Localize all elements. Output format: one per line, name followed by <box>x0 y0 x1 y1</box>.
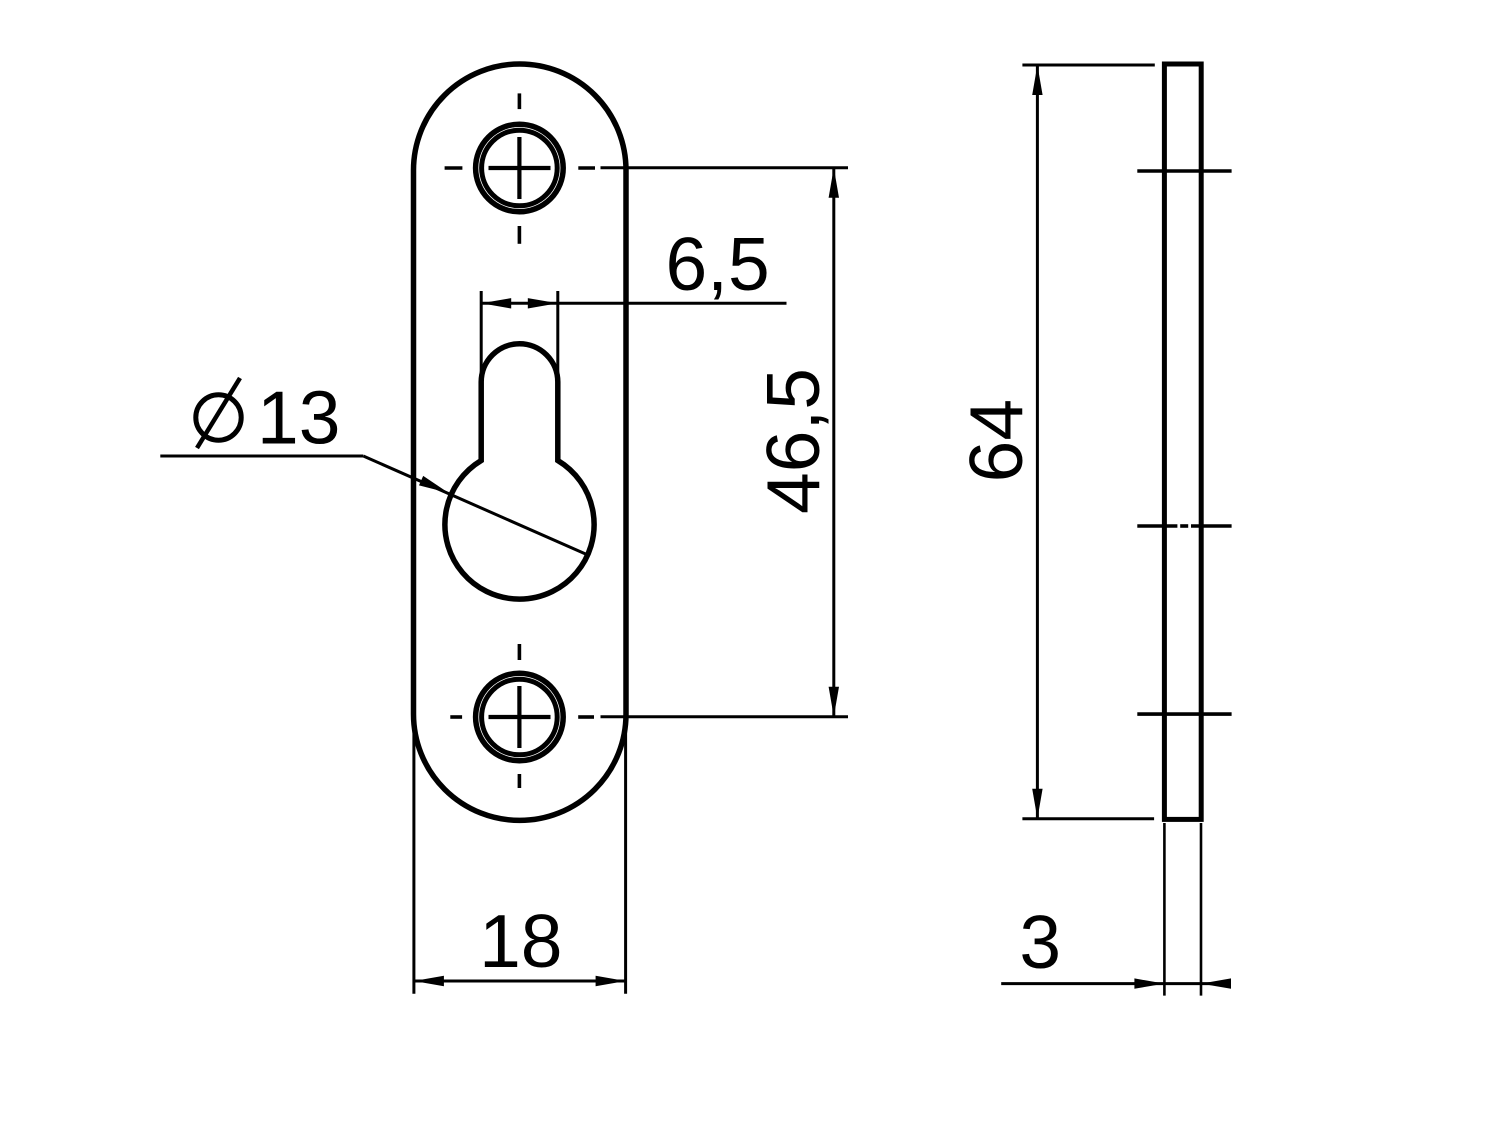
diameter symbol circle <box>196 395 241 440</box>
dimension 18 dimension line <box>414 980 626 983</box>
svg-text:46,5: 46,5 <box>751 368 835 514</box>
dimension 46,5 arrow down <box>829 687 839 717</box>
side view keyhole centerline (dash-dot) <box>1137 524 1231 528</box>
front view: plate outline (obround) <box>414 64 627 820</box>
dimension 64 dimension line <box>1036 65 1039 819</box>
dimension 3 left extension line <box>1163 823 1166 996</box>
svg-text:64: 64 <box>954 399 1038 482</box>
svg-text:3: 3 <box>1019 900 1061 984</box>
dimension 6,5 left extension line <box>480 291 483 379</box>
dimension 64 arrow up <box>1032 65 1042 95</box>
dimension 18 arrow right <box>596 976 626 986</box>
dimension 6,5 arrow left <box>481 298 511 308</box>
leader diameter 13: diagonal line through keyhole circle <box>363 456 587 555</box>
side view: plate rectangle <box>1164 64 1201 819</box>
dimension 3 arrow pointing right <box>1134 978 1164 988</box>
svg-text:13: 13 <box>257 376 340 460</box>
dimension 3 arrow pointing left <box>1201 978 1231 988</box>
top hole vertical centerline <box>518 93 522 243</box>
dimension 46,5 arrow up <box>829 168 839 198</box>
dimension 3 dimension line <box>1001 982 1230 985</box>
bottom screw hole inner circle <box>482 679 558 755</box>
bottom screw hole outer circle <box>476 673 564 761</box>
dimension 3 right extension line <box>1200 823 1203 996</box>
dimension 18 right extension line <box>624 716 627 994</box>
dimension 6,5 right extension line <box>556 291 559 373</box>
keyhole slot outline <box>445 344 594 599</box>
side view top hole centerline <box>1137 169 1231 173</box>
leader diameter 13: arrowhead on circle edge <box>419 476 449 493</box>
leader diameter 13: shoulder line <box>160 455 363 458</box>
diameter symbol slash <box>197 378 240 448</box>
side view bottom hole centerline <box>1137 712 1231 716</box>
top screw hole inner circle <box>482 130 558 206</box>
bottom hole vertical centerline <box>518 644 522 788</box>
top hole horizontal centerline <box>445 166 595 170</box>
dimension 46,5 top extension line <box>601 166 849 169</box>
dimension 64 arrow down <box>1032 789 1042 819</box>
dimension 64 top extension line <box>1022 64 1154 67</box>
dimension 64 bottom extension line <box>1022 817 1154 820</box>
dimension 18 left extension line <box>412 716 415 994</box>
bottom hole horizontal centerline <box>450 715 594 719</box>
svg-text:6,5: 6,5 <box>665 222 769 306</box>
dimension 46,5 bottom extension line <box>601 715 849 718</box>
svg-text:18: 18 <box>479 899 562 983</box>
dimension 6,5 arrow right <box>528 298 558 308</box>
dimension 18 arrow left <box>414 976 444 986</box>
dimension 6,5 dimension line <box>481 302 786 305</box>
dimension 46,5 dimension line <box>832 168 835 717</box>
top screw hole outer circle <box>476 124 564 212</box>
